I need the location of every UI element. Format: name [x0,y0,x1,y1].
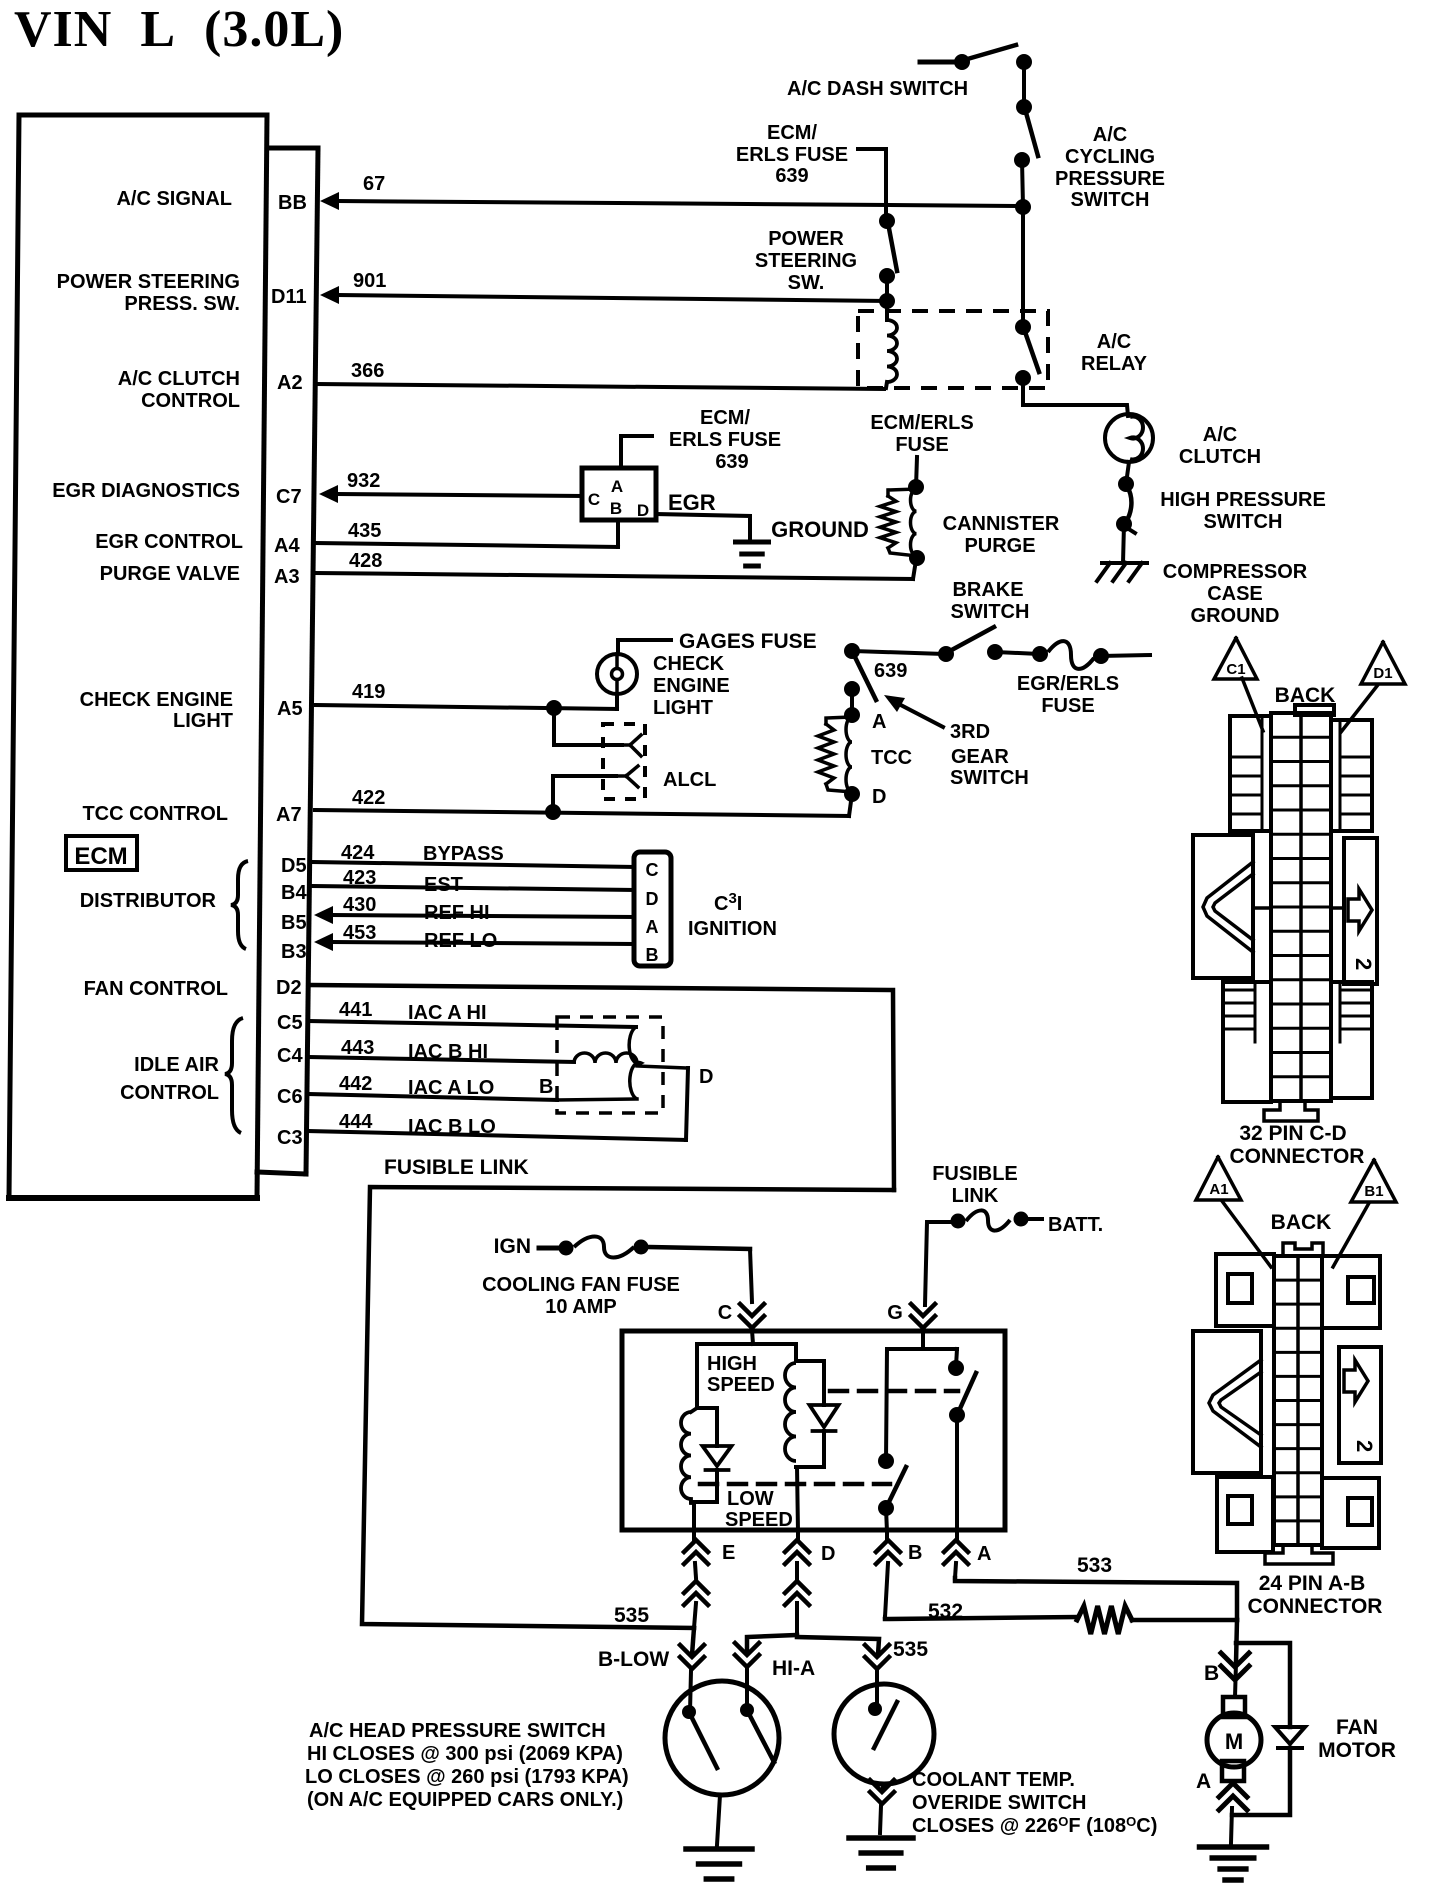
svg-text:VIN L (3.0L): VIN L (3.0L) [14,1,344,58]
svg-text:A2: A2 [277,372,303,394]
svg-text:B: B [646,945,659,965]
wire EGR pin D to ground [656,514,750,539]
label COOLANT TEMP. OVERIDE SWITCH [912,1769,1157,1837]
label ECM/ERLS FUSE (purge) [870,412,973,456]
label A/C CLUTCH CONTROL [118,368,240,412]
label COOLING FAN FUSE 10 AMP [482,1274,680,1318]
svg-text:PURGE VALVE: PURGE VALVE [100,563,240,585]
svg-text:A: A [977,1543,991,1565]
label BRAKE SWITCH [951,579,1030,623]
connector chevron G [911,1304,935,1328]
svg-text:B: B [539,1076,553,1098]
svg-text:3RD: 3RD [950,721,990,743]
relay pin B chevron [876,1532,900,1617]
svg-text:435: 435 [348,520,381,542]
wire from fuse going right [1101,655,1150,656]
svg-text:932: 932 [347,470,380,492]
svg-text:BYPASS: BYPASS [423,843,504,865]
svg-text:CONTROL: CONTROL [120,1082,219,1104]
wire winding junction to pin D [796,1467,824,1532]
3rd gear switch blade [853,653,876,700]
svg-text:A3: A3 [274,566,300,588]
svg-text:CASE: CASE [1207,583,1263,605]
node junction 901 [879,293,895,309]
svg-text:A5: A5 [277,698,303,720]
relay pin A chevron [944,1532,968,1578]
svg-text:GROUND: GROUND [1191,605,1280,627]
node junction 67/relay [1015,199,1031,215]
svg-text:C: C [718,1302,732,1324]
pointer triangle C1 [1214,638,1257,679]
svg-text:FAN: FAN [1336,1716,1378,1739]
svg-text:453: 453 [343,922,376,944]
wire 453 REF LO with arrow [314,933,634,951]
leader A1 [1222,1201,1271,1267]
svg-text:PRESSURE: PRESSURE [1055,168,1165,190]
wire 533 from relay A [955,1578,1237,1620]
A/C head pressure switch [665,1681,779,1795]
svg-text:A1: A1 [1209,1181,1228,1198]
leader D1 [1341,686,1377,732]
wire 428 from A3 to cannister purge [316,560,916,579]
svg-text:ENGINE: ENGINE [653,675,730,697]
svg-text:639: 639 [874,660,907,682]
svg-text:D11: D11 [271,286,307,308]
node junction 422/ALCL [545,804,561,820]
svg-text:COMPRESSOR: COMPRESSOR [1163,561,1308,583]
label COMPRESSOR CASE GROUND [1163,561,1308,627]
wire 901 to D11 with arrow [320,286,887,304]
svg-text:A: A [611,477,623,496]
relay G branch [886,1349,957,1461]
label IDLE AIR CONTROL with brace [120,1018,243,1133]
svg-text:A/C HEAD PRESSURE SWITCH: A/C HEAD PRESSURE SWITCH [309,1720,606,1742]
svg-text:533: 533 [1077,1554,1112,1577]
svg-text:TCC: TCC [871,747,912,769]
svg-text:COOLING FAN FUSE: COOLING FAN FUSE [482,1274,680,1296]
ground (EGR) [736,540,769,545]
svg-text:BATT.: BATT. [1048,1214,1103,1236]
relay switch 2 (low speed) [878,1453,906,1532]
svg-text:D: D [637,501,649,520]
svg-text:C3I: C3I [714,890,742,915]
wire 532 from relay B [885,1617,1077,1619]
label 24 PIN A-B CONNECTOR [1248,1572,1383,1618]
A/C dash switch [920,45,1032,70]
label ECM/ERLS FUSE 639 (EGR) [669,407,781,473]
wire E to pressure switch B-LOW [680,1628,704,1712]
svg-text:IGNITION: IGNITION [688,918,777,940]
IAC winding A [557,1027,641,1100]
wire pressure switch to ground [717,1795,720,1845]
C3I ignition connector [634,852,671,966]
label LOW SPEED [725,1488,793,1531]
svg-text:532: 532 [928,1600,963,1623]
relay pin D chevrons [785,1532,809,1635]
svg-text:EGR: EGR [668,490,716,515]
EGR connector box [582,468,656,520]
svg-text:366: 366 [351,360,384,382]
svg-text:ALCL: ALCL [663,769,716,791]
svg-text:ECM/ERLS: ECM/ERLS [870,412,973,434]
relay switch 1 (high speed) [948,1360,976,1532]
svg-text:LINK: LINK [952,1185,999,1207]
svg-text:67: 67 [363,173,385,195]
label POWER STEERING SW. [755,228,857,294]
compressor case ground [1097,563,1147,581]
wire fusible link (fan control feed) [362,1187,894,1628]
svg-text:BB: BB [278,192,307,214]
node junction 639 [844,643,860,659]
node junction 419/ALCL [546,700,562,716]
wire brake switch to EGR/ERLS fuse [995,652,1040,654]
svg-text:CYCLING: CYCLING [1065,146,1155,168]
relay pin E chevrons [684,1532,708,1628]
label POWER STEERING PRESS. SW. [57,271,240,315]
ALCL lower pin fork [616,766,638,787]
svg-text:STEERING: STEERING [755,250,857,272]
connector chevron HI-A [735,1643,759,1710]
svg-text:LIGHT: LIGHT [653,697,713,719]
svg-text:443: 443 [341,1037,374,1059]
wire GAGES FUSE stub [618,640,671,654]
svg-text:535: 535 [614,1604,649,1627]
svg-text:SPEED: SPEED [725,1509,793,1531]
32 pin C-D connector drawing [1193,705,1377,1121]
svg-text:535: 535 [893,1638,928,1661]
leader C1 [1242,678,1263,731]
resistor 532 [1077,1606,1132,1634]
svg-text:MOTOR: MOTOR [1318,1739,1396,1762]
3rd gear switch contact A [844,681,860,715]
label HIGH SPEED [707,1353,775,1396]
TCC solenoid [818,707,860,802]
wire 442 IAC A LO [309,1094,557,1100]
svg-text:A/C DASH SWITCH: A/C DASH SWITCH [787,78,968,100]
wire 435 from A4 to EGR [316,520,618,547]
svg-text:A: A [1196,1770,1211,1793]
wire clutch to high pressure switch [1126,462,1129,484]
svg-text:EGR DIAGNOSTICS: EGR DIAGNOSTICS [52,480,240,502]
svg-text:BRAKE: BRAKE [952,579,1023,601]
svg-text:PRESS. SW.: PRESS. SW. [124,293,240,315]
svg-text:D2: D2 [276,977,302,999]
ECM connector block outline [9,115,318,1198]
svg-text:REF LO: REF LO [424,930,497,952]
ground (coolant switch) [849,1835,913,1841]
svg-text:B: B [1204,1662,1219,1685]
svg-text:428: 428 [349,550,382,572]
svg-text:EST: EST [424,874,463,896]
A/C relay coil [886,301,897,388]
svg-text:POWER: POWER [768,228,844,250]
svg-text:HI-A: HI-A [772,1657,815,1680]
brake switch [938,627,1003,662]
wire relay to A/C clutch [1023,378,1128,416]
EGR/ERLS fuse [1032,641,1109,669]
svg-text:DISTRIBUTOR: DISTRIBUTOR [80,890,217,912]
svg-text:639: 639 [775,165,808,187]
wire node to A/C relay [1021,207,1025,327]
svg-text:B4: B4 [281,882,307,904]
wire cycling switch down to node 67 [1022,160,1023,206]
label HIGH PRESSURE SWITCH [1160,489,1326,533]
svg-text:ECM: ECM [74,843,127,870]
wire IGN to relay C [750,1249,752,1302]
wire to brake switch [852,651,946,654]
svg-text:422: 422 [352,787,385,809]
A/C relay switch [1015,319,1039,386]
svg-text:D5: D5 [281,855,307,877]
fan motor [1207,1663,1261,1781]
svg-text:441: 441 [339,999,372,1021]
svg-text:IAC A LO: IAC A LO [408,1077,494,1099]
svg-text:B-LOW: B-LOW [598,1648,669,1671]
IAC dashed box [557,1017,663,1113]
svg-text:FUSIBLE LINK: FUSIBLE LINK [384,1156,529,1179]
svg-text:EGR/ERLS: EGR/ERLS [1017,673,1119,695]
pointer triangle D1 [1361,642,1405,684]
svg-text:430: 430 [343,894,376,916]
svg-text:M: M [1225,1729,1243,1754]
svg-text:HI CLOSES @ 300 psi (2069 KPA): HI CLOSES @ 300 psi (2069 KPA) [307,1743,623,1765]
wire 424 BYPASS [313,862,634,867]
svg-text:FUSE: FUSE [895,434,948,456]
battery fusible link [925,1210,1042,1305]
label ECM/ERLS FUSE 639 [736,122,848,187]
relay inner wire frame [697,1344,824,1408]
IAC winding B [574,1053,637,1063]
svg-text:EGR CONTROL: EGR CONTROL [95,531,243,553]
svg-text:A/C: A/C [1097,331,1131,353]
svg-text:LO CLOSES @ 260 psi (1793 KPA): LO CLOSES @ 260 psi (1793 KPA) [305,1766,629,1788]
wire IAC D [637,1066,688,1068]
wire 366 from A2 to A/C relay coil [317,384,884,389]
wire resistor to fan motor node [1132,1618,1237,1623]
svg-text:LIGHT: LIGHT [173,710,233,732]
label EGR/ERLS FUSE [1017,673,1119,717]
svg-text:SW.: SW. [788,272,825,294]
svg-text:B5: B5 [281,912,307,934]
svg-text:ERLS FUSE: ERLS FUSE [736,144,848,166]
wire ECM/ERLS fuse 639 to EGR pin A [621,436,652,468]
svg-text:D: D [699,1066,713,1088]
wire 430 REF HI with arrow [314,906,634,924]
label A/C CYCLING PRESSURE SWITCH [1055,124,1165,211]
wire ECM/ERLS fuse to power steering switch [858,149,886,221]
svg-text:A/C SIGNAL: A/C SIGNAL [116,188,232,210]
label FUSIBLE LINK (batt) [932,1163,1018,1207]
connector chevron C [740,1304,764,1328]
svg-text:HIGH: HIGH [707,1353,757,1375]
svg-text:IGN: IGN [494,1235,531,1258]
svg-text:B1: B1 [1364,1183,1383,1200]
high speed winding [785,1363,796,1461]
connector chevron 535 (coolant) [865,1645,889,1708]
svg-text:CHECK ENGINE: CHECK ENGINE [80,689,233,711]
svg-text:GAGES FUSE: GAGES FUSE [679,630,817,653]
svg-text:ECM/: ECM/ [700,407,750,429]
label A/C CLUTCH [1179,424,1261,468]
svg-text:(ON A/C EQUIPPED CARS ONLY.): (ON A/C EQUIPPED CARS ONLY.) [307,1789,623,1811]
svg-text:LOW: LOW [727,1488,774,1510]
svg-text:B3: B3 [281,941,307,963]
wire 932 to C7 with arrow [319,485,582,503]
low speed diode [703,1408,732,1502]
svg-text:2: 2 [1352,1440,1377,1452]
svg-text:POWER STEERING: POWER STEERING [57,271,240,293]
relay actuation dashed link (low) [700,1482,890,1487]
svg-text:444: 444 [339,1111,373,1133]
svg-text:CHECK: CHECK [653,653,725,675]
wire dash switch to cycling switch [1022,62,1026,107]
svg-text:FAN CONTROL: FAN CONTROL [84,978,228,1000]
label CHECK ENGINE LIGHT (lamp) [653,653,730,719]
wire to compressor case ground [1123,524,1124,563]
svg-text:SWITCH: SWITCH [951,601,1030,623]
cannister purge solenoid [880,479,925,566]
pointer triangle A1 [1196,1157,1241,1200]
svg-text:CONNECTOR: CONNECTOR [1230,1145,1365,1168]
high pressure switch [1116,476,1135,533]
svg-text:C4: C4 [277,1045,303,1067]
relay actuation dashed link (high) [830,1389,958,1394]
svg-text:PURGE: PURGE [964,535,1035,557]
fan motor diode branch [1232,1643,1305,1815]
svg-text:SWITCH: SWITCH [950,767,1029,789]
cooling fan relay box [622,1331,1005,1530]
svg-text:IAC B LO: IAC B LO [408,1116,496,1138]
arrow to 3rd gear switch [884,695,943,727]
wire node to ALCL lower pin [553,776,616,812]
ALCL upper pin fork [622,735,641,756]
svg-text:GROUND: GROUND [771,517,869,542]
ground (fan motor) [1200,1844,1267,1850]
wire fan control D2 [310,985,894,1190]
svg-text:A/C: A/C [1093,124,1127,146]
svg-text:D: D [821,1543,835,1565]
check engine light bulb [597,654,637,707]
svg-text:REF HI: REF HI [424,902,490,924]
svg-text:CONTROL: CONTROL [141,390,240,412]
svg-text:IAC B HI: IAC B HI [408,1041,488,1063]
svg-text:423: 423 [343,867,376,889]
label FAN MOTOR [1318,1716,1396,1762]
svg-text:C5: C5 [277,1012,303,1034]
svg-text:ERLS FUSE: ERLS FUSE [669,429,781,451]
label DISTRIBUTOR with brace [80,861,248,949]
pointer triangle B1 [1351,1160,1396,1202]
svg-text:A/C: A/C [1203,424,1237,446]
low speed winding [681,1408,717,1503]
svg-text:B: B [610,499,622,518]
coolant temp override switch [834,1684,934,1784]
svg-text:OVERIDE SWITCH: OVERIDE SWITCH [912,1792,1086,1814]
wire winding junction to pin E [691,1502,717,1532]
svg-text:32 PIN C-D: 32 PIN C-D [1239,1122,1346,1145]
svg-text:D: D [872,786,886,808]
wire 419 from A5 [316,694,617,709]
wire D branch to HI-A and coolant switch [747,1635,879,1655]
svg-text:C7: C7 [276,486,302,508]
leader B1 [1333,1203,1369,1267]
svg-text:A7: A7 [276,804,302,826]
svg-text:24 PIN A-B: 24 PIN A-B [1259,1572,1366,1595]
svg-text:FUSE: FUSE [1041,695,1094,717]
svg-text:BACK: BACK [1271,1211,1332,1234]
svg-text:C: C [646,860,659,880]
wire 67 to BB with arrow [320,192,1023,210]
svg-text:2: 2 [1351,958,1376,970]
ALCL connector dashed box [603,724,645,799]
svg-text:SWITCH: SWITCH [1071,189,1150,211]
24 pin A-B connector drawing [1193,1243,1381,1564]
cooling fan fuse [539,1237,750,1258]
wire fuse to cannister purge [916,457,917,487]
svg-text:TCC CONTROL: TCC CONTROL [82,803,228,825]
svg-text:B: B [908,1542,922,1564]
wire 444 IAC B LO [308,1068,688,1140]
svg-text:CLUTCH: CLUTCH [1179,446,1261,468]
svg-text:A: A [646,917,659,937]
svg-text:GEAR: GEAR [951,746,1009,768]
wire 441 IAC A HI [309,1021,636,1027]
svg-text:A: A [872,711,886,733]
svg-text:IDLE AIR: IDLE AIR [134,1054,219,1076]
svg-text:D: D [646,889,659,909]
svg-text:CANNISTER: CANNISTER [943,513,1060,535]
A/C relay dashed box [858,311,1048,388]
ECM boxed label [66,836,137,870]
svg-text:IAC A HI: IAC A HI [408,1002,487,1024]
connector chevron B (fan motor) [1221,1653,1249,1680]
label CHECK ENGINE LIGHT [80,689,233,732]
svg-text:SPEED: SPEED [707,1374,775,1396]
svg-text:G: G [887,1302,903,1324]
svg-text:ECM/: ECM/ [767,122,817,144]
chevron below coolant switch [870,1780,894,1833]
svg-text:COOLANT TEMP.: COOLANT TEMP. [912,1769,1075,1791]
svg-text:C: C [588,490,600,509]
svg-text:901: 901 [353,270,386,292]
wire 423 EST [313,886,634,890]
svg-text:C3: C3 [277,1127,303,1149]
high speed diode [810,1361,839,1467]
label 32 PIN C-D CONNECTOR [1230,1122,1365,1168]
label 3RD GEAR SWITCH [950,721,1029,789]
wire node to ALCL pin [554,708,622,745]
chevron below fan motor [1219,1783,1247,1843]
svg-text:C6: C6 [277,1086,303,1108]
svg-text:CLOSES @ 226OF (108OC): CLOSES @ 226OF (108OC) [912,1814,1157,1837]
svg-text:HIGH PRESSURE: HIGH PRESSURE [1160,489,1326,511]
svg-text:A4: A4 [274,535,300,557]
svg-text:CONNECTOR: CONNECTOR [1248,1595,1383,1618]
wire 443 IAC B HI [309,1057,574,1062]
svg-text:SWITCH: SWITCH [1204,511,1283,533]
svg-text:424: 424 [341,842,375,864]
A/C cycling pressure switch [1014,99,1038,168]
svg-text:FUSIBLE: FUSIBLE [932,1163,1018,1185]
wire switch to node 901 [885,276,889,301]
label A/C HEAD PRESSURE SWITCH [305,1720,629,1811]
svg-text:E: E [722,1542,735,1564]
ground (pressure switch) [686,1846,752,1852]
label C3I IGNITION [688,890,777,940]
svg-text:RELAY: RELAY [1081,353,1148,375]
label CANNISTER PURGE [943,513,1060,557]
wire 422 from A7 to TCC [315,794,852,816]
